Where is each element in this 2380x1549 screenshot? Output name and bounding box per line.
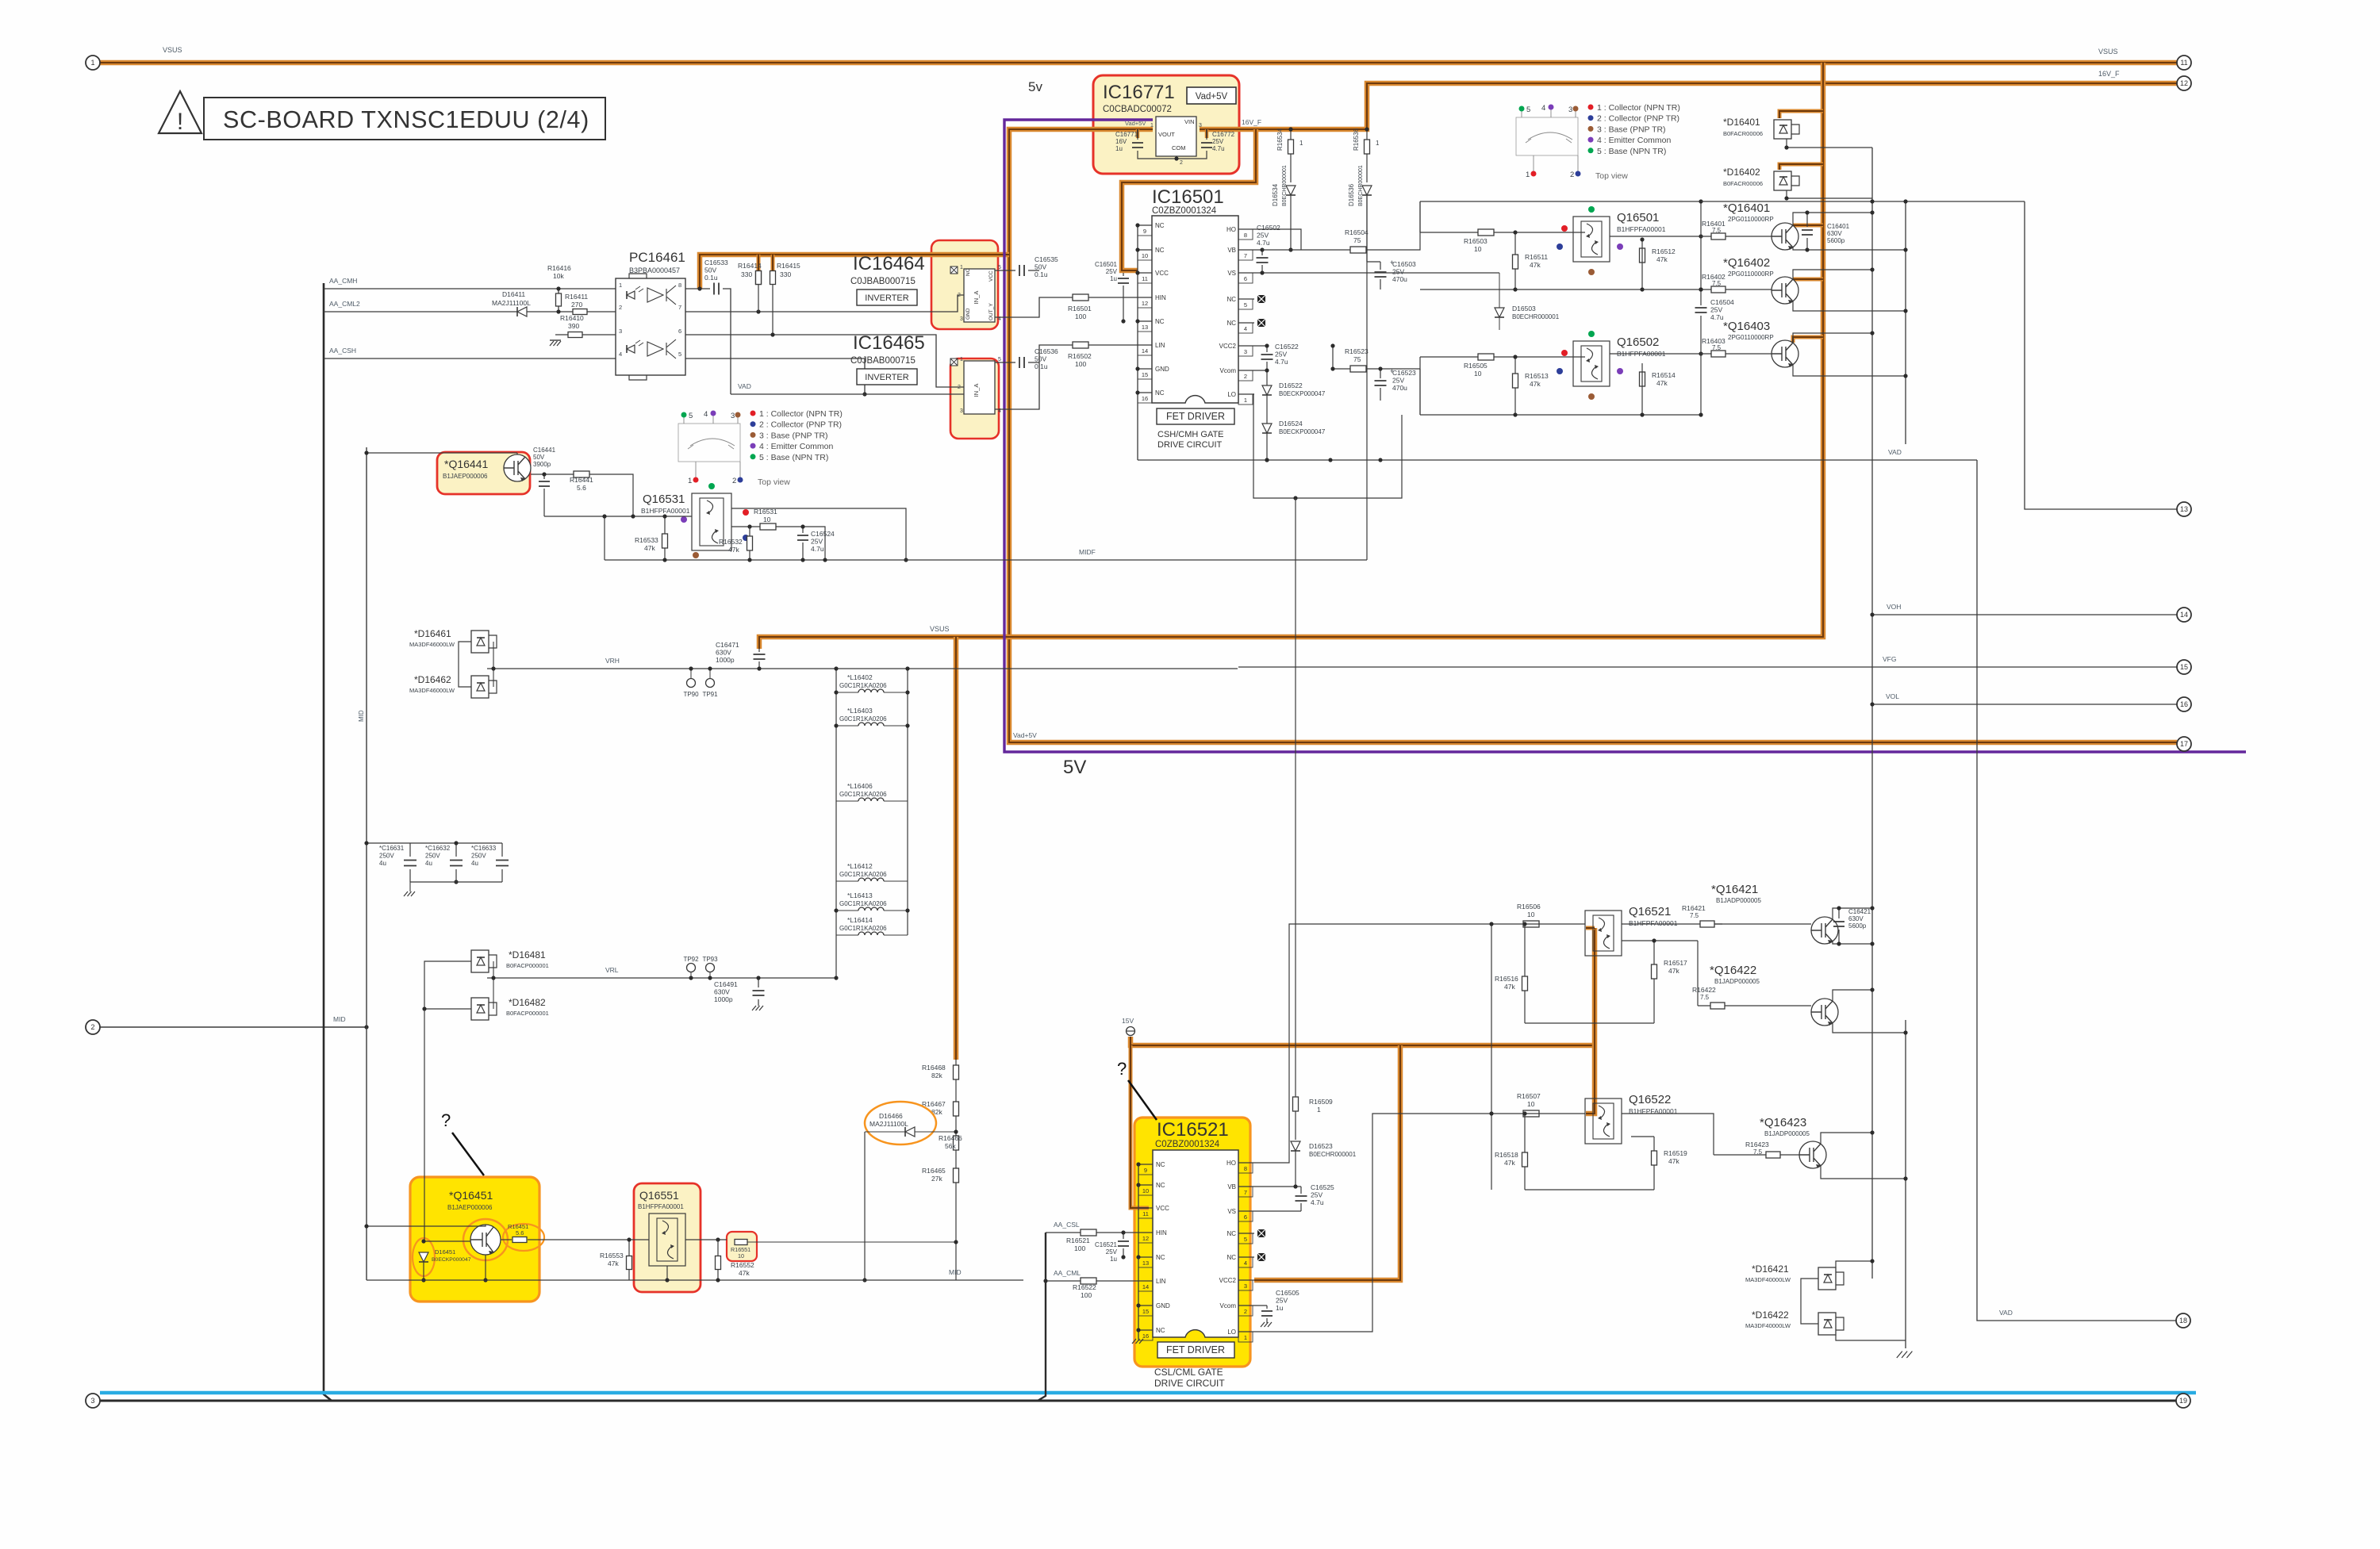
svg-text:5V: 5V [1063,757,1086,778]
capacitor C16533 [714,283,719,295]
wire Q16531 base [544,516,692,517]
svg-text:B0FACR00006: B0FACR00006 [1723,130,1763,137]
resistor R16522 [1081,1278,1096,1284]
svg-text:390: 390 [568,322,579,330]
resistor R16501 [1073,294,1088,301]
svg-text:B0ECHR000001: B0ECHR000001 [1309,1151,1357,1158]
svg-text:10: 10 [738,1252,744,1260]
wire MID from terminal 2 [100,1026,367,1028]
wire orange branch to IC16521 VCC [1130,1045,1149,1208]
wire GND rail VAD [1138,459,1977,461]
svg-text:14: 14 [1142,1283,1149,1290]
wire LO IC16521 [1254,1114,1491,1332]
svg-text:IC16465: IC16465 [853,332,925,354]
svg-text:*L16402: *L16402 [847,673,873,681]
svg-text:1: 1 [1526,171,1530,179]
wire HO IC16521 up to Q16521 [1254,924,1511,1163]
wire Q16403 emitter [1793,365,1906,376]
terminal 13 [2177,502,2191,516]
svg-text:13: 13 [1142,1260,1149,1267]
svg-text:C16502: C16502 [1257,224,1280,232]
svg-text:4u: 4u [425,860,432,867]
svg-text:R16415: R16415 [777,262,800,270]
wire Q16401 emitter [1793,247,1906,250]
node NC terminators IC16521 [1257,1229,1265,1237]
svg-text:LIN: LIN [1155,342,1165,349]
svg-text:!: ! [177,109,183,135]
capacitor C16503 [1367,262,1380,289]
svg-text:18: 18 [2179,1317,2187,1325]
svg-text:4u: 4u [379,860,386,867]
svg-text:IC16501: IC16501 [1152,186,1224,208]
svg-text:50V: 50V [533,454,545,461]
title box SC-BOARD TXNSC1EDUU (2/4) [204,98,605,140]
wire Vcom chain [1254,370,1267,460]
svg-text:2: 2 [1244,1308,1247,1315]
wire vertical AA bus [324,283,332,1401]
diode D16524 [1262,424,1272,433]
wire Q16441 emitter [531,474,633,516]
svg-text:B1JADP000005: B1JADP000005 [1714,978,1760,985]
svg-text:7.5: 7.5 [1712,280,1722,287]
svg-text:B1JADP000005: B1JADP000005 [1764,1130,1810,1137]
svg-text:470u: 470u [1392,384,1407,392]
resistor R16507 [1523,1110,1539,1117]
svg-text:COM: COM [1172,144,1186,151]
svg-text:100: 100 [1081,1291,1092,1299]
svg-text:25V: 25V [1257,232,1269,240]
resistor R16551 [735,1240,747,1245]
svg-text:Q16531: Q16531 [643,493,685,506]
wire Q16521 bottom rail [1525,1022,1654,1024]
svg-text:R16523: R16523 [1345,347,1368,355]
wire VAD rail [731,394,969,409]
svg-text:14: 14 [2180,611,2188,619]
wire VFG to terminal 15 [1238,666,2177,668]
svg-text:*Q16451: *Q16451 [449,1189,493,1202]
capacitor C16632 [455,843,457,882]
wire MIDF vertical from C16503 [1366,195,1368,560]
highlight block IC16771 [1093,75,1239,174]
svg-text:Q16522: Q16522 [1629,1093,1671,1106]
svg-text:CSH/CMH GATE: CSH/CMH GATE [1157,430,1224,439]
svg-text:47k: 47k [739,1269,750,1277]
svg-text:VRH: VRH [605,657,620,665]
IC IC16464 chip [964,269,995,322]
capacitor C16631 [367,842,502,844]
svg-text:10k: 10k [553,272,564,280]
transistor pair Q16531 [692,493,731,550]
svg-text:1: 1 [688,477,692,485]
svg-text:HO: HO [1226,1160,1236,1167]
svg-text:DRIVE CIRCUIT: DRIVE CIRCUIT [1157,440,1223,450]
capacitor C16536 [995,362,1039,363]
svg-text:8: 8 [1244,232,1247,239]
svg-text:SC-BOARD TXNSC1EDUU (2/4): SC-BOARD TXNSC1EDUU (2/4) [223,106,589,133]
capacitor C16772 [1201,143,1212,148]
svg-text:5: 5 [1244,1236,1247,1243]
svg-text:VAD: VAD [1888,448,1902,456]
terminal 14 [2177,608,2191,622]
svg-text:D16522: D16522 [1279,381,1303,389]
wire vertical VOL net [1869,704,1871,705]
wire AA_CSH [324,358,616,359]
wire MID bottom rail [367,1279,1023,1281]
svg-text:470u: 470u [1392,275,1407,283]
svg-text:15: 15 [2180,663,2188,671]
svg-text:C0ZBZ0001324: C0ZBZ0001324 [1155,1140,1220,1149]
wire D16481 D16482 left [424,961,471,1009]
resistor R16403 [1701,353,1772,355]
svg-text:3 : Base (PNP TR): 3 : Base (PNP TR) [759,431,828,440]
terminal 12 [2177,76,2191,90]
wire Vad+5V rail to inverters [700,255,1009,289]
wire vertical MID bus [366,447,367,1280]
capacitor C16501 [1123,273,1124,321]
svg-text:C16401: C16401 [1827,223,1850,230]
svg-text:VFG: VFG [1883,655,1896,663]
wire IC16464 out to HIN [995,297,1138,317]
svg-text:D16536: D16536 [1348,183,1355,206]
svg-text:6: 6 [678,328,681,335]
svg-text:R16466: R16466 [939,1134,962,1142]
wire collector rail x2360 [1871,148,1873,1279]
svg-text:7: 7 [678,304,681,311]
svg-text:FET DRIVER: FET DRIVER [1166,411,1225,422]
svg-text:10: 10 [763,516,771,523]
svg-text:*L16406: *L16406 [847,782,873,790]
svg-text:R16501: R16501 [1068,305,1092,312]
transistor pair Q16502 [1573,341,1610,386]
svg-text:3: 3 [1244,348,1247,355]
svg-text:7: 7 [1244,1189,1247,1196]
svg-text:B0ECKP000047: B0ECKP000047 [432,1257,471,1263]
svg-text:HO: HO [1226,226,1236,233]
svg-text:B1HFPFA00001: B1HFPFA00001 [1617,225,1666,233]
capacitor C16491 [758,978,759,1006]
resistor R16423 [1766,1152,1780,1158]
svg-text:R16503: R16503 [1464,237,1487,245]
wire driver top rail [1420,201,1701,202]
svg-text:4: 4 [1541,104,1545,113]
capacitor C16421 [1833,908,1872,919]
capacitor C16633 [501,843,503,882]
wire Q16521 base rail [1491,924,1492,1190]
svg-text:D16466: D16466 [879,1112,903,1120]
wire vertical x2357 lower [1869,615,1871,869]
svg-text:330: 330 [741,270,752,278]
svg-text:R16506: R16506 [1517,903,1541,911]
svg-text:10: 10 [1142,252,1148,259]
svg-text:50V: 50V [1035,355,1046,363]
svg-text:2 : Collector (PNP TR): 2 : Collector (PNP TR) [1597,114,1679,124]
svg-text:Q16502: Q16502 [1617,335,1659,349]
capacitor C16521 [1123,1233,1124,1257]
svg-text:R16505: R16505 [1464,362,1487,370]
wire Q16422 collector [1833,990,1872,1001]
svg-text:FET DRIVER: FET DRIVER [1166,1344,1225,1355]
resistor R16511 [1514,232,1516,289]
svg-text:LO: LO [1227,391,1236,398]
svg-text:1u: 1u [1110,1256,1117,1263]
svg-text:1: 1 [1244,1334,1247,1341]
wire Q16531 right out [731,508,906,560]
svg-text:IC16771: IC16771 [1103,82,1175,103]
resistor R16532 [749,527,750,560]
svg-text:1: 1 [1299,140,1303,147]
resistor R16415 [772,270,773,335]
svg-text:*Q16423: *Q16423 [1760,1116,1806,1129]
resistor R16466 [954,1136,959,1150]
svg-text:4: 4 [1244,1260,1247,1267]
highlight block IC16464 [931,240,998,329]
wire IC16521 left pin column [1138,1164,1139,1339]
svg-text:3 : Base (PNP TR): 3 : Base (PNP TR) [1597,125,1666,134]
svg-text:16: 16 [2180,700,2188,708]
svg-text:10: 10 [1474,370,1482,378]
resistor R16536 [1366,129,1368,182]
svg-text:R16536: R16536 [1353,128,1360,151]
wire AA_CML2 [324,311,616,312]
svg-text:B1HFPFA00001: B1HFPFA00001 [638,1203,684,1210]
svg-text:D16451: D16451 [435,1248,455,1256]
svg-text:15V: 15V [1122,1017,1134,1025]
svg-text:B0FACR00006: B0FACR00006 [1723,180,1763,187]
svg-text:5 : Base (NPN TR): 5 : Base (NPN TR) [759,453,828,462]
svg-text:NC: NC [1155,222,1165,229]
resistor R16441 [574,471,589,477]
svg-text:*D16462: *D16462 [414,674,451,685]
svg-text:MA3DF46000LW: MA3DF46000LW [409,687,455,694]
svg-text:2: 2 [1244,373,1247,380]
svg-text:B0ECHR000001: B0ECHR000001 [1512,313,1560,320]
svg-text:R16519: R16519 [1664,1149,1687,1157]
svg-text:Q16501: Q16501 [1617,211,1659,224]
svg-text:VSUS: VSUS [930,625,950,633]
svg-text:VSUS: VSUS [163,46,182,54]
capacitor C16525 [1254,1187,1301,1211]
wire Q16423 collector [1821,1133,1872,1144]
svg-text:GND: GND [1156,1302,1170,1309]
wire Q16422 emitter [1833,1023,1906,1033]
svg-text:G0C1R1KA0206: G0C1R1KA0206 [839,791,887,798]
resistor R16467 [954,1102,959,1116]
wire AA_CSL [1046,1232,1138,1233]
svg-text:R16518: R16518 [1495,1151,1518,1159]
wire VRL [487,977,836,979]
svg-text:R16504: R16504 [1345,228,1368,236]
svg-text:10: 10 [1527,911,1535,918]
terminal 15 [2177,660,2191,674]
svg-text:AA_CSL: AA_CSL [1054,1221,1080,1229]
svg-text:NC: NC [1156,1161,1165,1168]
svg-text:IC16464: IC16464 [853,253,925,274]
svg-text:25V: 25V [1212,138,1224,145]
svg-text:?: ? [1117,1059,1127,1079]
svg-text:R16441: R16441 [570,476,593,484]
svg-text:5: 5 [998,265,1001,270]
resistor R16411 [573,309,587,315]
svg-text:100: 100 [1074,1244,1085,1252]
svg-text:100: 100 [1075,312,1086,320]
wire orange stub Q16402 collector [1793,278,1823,282]
svg-text:GND: GND [965,308,971,320]
svg-text:C16441: C16441 [533,447,556,454]
svg-text:4.7u: 4.7u [1275,358,1288,366]
capacitor C16535 [995,270,1039,271]
diode D16466 with orange ellipse [865,1102,936,1144]
wire Q16451 base [424,1010,470,1241]
svg-text:25V: 25V [1106,1248,1118,1256]
svg-text:1: 1 [1317,1106,1321,1114]
resistor R16505 [1420,356,1585,358]
svg-text:*C16632: *C16632 [425,845,451,852]
svg-text:5v: 5v [1028,79,1042,94]
resistor R16517 [1622,940,1698,941]
svg-text:R16514: R16514 [1652,371,1676,379]
svg-text:R16507: R16507 [1517,1092,1541,1100]
svg-text:G0C1R1KA0206: G0C1R1KA0206 [839,715,887,723]
svg-text:47k: 47k [1668,1157,1679,1165]
wire VRH [487,668,1238,669]
resistor R16553 [628,1240,630,1280]
svg-text:25V: 25V [1392,377,1404,385]
svg-text:10: 10 [1142,1187,1149,1194]
svg-text:8: 8 [678,282,681,289]
svg-text:B0FACP000001: B0FACP000001 [506,1010,549,1017]
svg-text:7.5: 7.5 [1690,912,1699,919]
svg-text:C16501: C16501 [1095,261,1118,268]
svg-text:7: 7 [1244,252,1247,259]
svg-text:C16536: C16536 [1035,347,1058,355]
svg-text:VOUT: VOUT [1158,131,1175,138]
svg-text:NC: NC [1226,296,1236,303]
svg-text:HIN: HIN [1156,1229,1167,1237]
terminal 11 [2177,56,2191,70]
svg-text:C16421: C16421 [1848,908,1871,915]
svg-text:VIN: VIN [1184,118,1195,125]
svg-text:C16524: C16524 [811,530,835,538]
resistor R16421 [1700,921,1714,927]
svg-text:AA_CML2: AA_CML2 [329,300,360,308]
svg-text:75: 75 [1353,355,1361,363]
transistor Q16402 [1772,277,1798,304]
svg-text:R16410: R16410 [560,314,584,322]
wire D16461 D16462 left [459,642,471,687]
svg-text:AA_CML: AA_CML [1054,1269,1081,1277]
svg-text:LO: LO [1227,1329,1236,1336]
svg-text:Q16521: Q16521 [1629,905,1671,918]
svg-text:C0JBAB000715: C0JBAB000715 [850,356,916,366]
svg-text:3900p: 3900p [533,461,551,468]
capacitor C16505 [1254,1306,1267,1323]
svg-text:5600p: 5600p [1848,922,1867,930]
svg-text:VCC: VCC [988,270,994,282]
svg-text:*D16422: *D16422 [1752,1309,1789,1321]
wire IC16465 out to LIN [995,345,1138,409]
svg-text:4: 4 [1244,325,1247,332]
svg-text:C16525: C16525 [1311,1183,1334,1191]
transistor Q16422 [1811,999,1838,1026]
svg-text:1: 1 [619,282,622,289]
svg-text:R16468: R16468 [922,1064,946,1072]
svg-text:4.7u: 4.7u [1311,1198,1324,1206]
wire HO network [1254,229,1333,250]
svg-text:250V: 250V [379,853,394,860]
wire PC16461 pin6 [685,335,964,387]
svg-text:G0C1R1KA0206: G0C1R1KA0206 [839,925,887,932]
svg-text:9: 9 [1144,1167,1147,1174]
wire VSUS top bus [100,60,2177,66]
wire Q16451 collector top [367,1225,486,1226]
wire emitter rail x2402 [1905,201,1906,444]
resistor R16533 [664,516,666,560]
svg-text:B0ECKP000047: B0ECKP000047 [1279,428,1326,435]
resistor R16512 [1630,262,1631,289]
svg-text:*D16461: *D16461 [414,628,451,639]
highlight block Q16451 [410,1177,539,1302]
testpoint TP90 [690,669,692,678]
resistor R16521 [1081,1229,1096,1236]
svg-text:C16471: C16471 [716,641,739,649]
svg-text:5: 5 [689,412,693,420]
svg-text:C16491: C16491 [714,980,738,988]
svg-text:C16522: C16522 [1275,343,1299,351]
svg-text:7.5: 7.5 [1700,994,1710,1001]
svg-text:1: 1 [960,357,963,362]
svg-text:2: 2 [958,293,961,298]
svg-text:*C16633: *C16633 [471,845,497,852]
svg-text:*D16401: *D16401 [1723,117,1760,128]
svg-text:25V: 25V [1106,268,1118,275]
transistor Q16421 [1811,917,1838,944]
svg-text:250V: 250V [425,853,440,860]
svg-text:VB: VB [1227,1183,1236,1191]
svg-text:IN_A: IN_A [973,384,980,397]
svg-text:1u: 1u [1276,1304,1284,1312]
svg-text:R16411: R16411 [565,293,588,301]
svg-text:4: 4 [619,351,622,358]
svg-text:1: 1 [90,59,94,67]
terminal 3 [86,1394,100,1408]
svg-text:AA_CSH: AA_CSH [329,347,356,355]
svg-text:C16771: C16771 [1115,131,1138,138]
capacitor C16771 [1136,129,1140,138]
svg-text:5: 5 [678,351,681,358]
wire Q16423 emitter [1821,1166,1906,1179]
svg-text:VB: VB [1227,247,1236,254]
wire PC16461 pin7 [685,295,964,312]
wire VS rail [1254,272,1499,274]
svg-text:47k: 47k [1504,983,1515,991]
svg-text:5: 5 [1526,105,1530,114]
svg-text:75: 75 [1353,236,1361,244]
svg-text:R16522: R16522 [1073,1283,1096,1291]
svg-text:*C16631: *C16631 [379,845,405,852]
wire VOL vertical [1872,704,2177,705]
terminal 18 [2176,1313,2190,1328]
svg-text:R16553: R16553 [600,1252,624,1260]
svg-text:4 : Emitter Common: 4 : Emitter Common [759,442,834,451]
ground D16422 [1897,1352,1913,1358]
svg-text:4.7u: 4.7u [1710,313,1724,321]
resistor R16531 [731,527,825,560]
wire VCC2 to driver network [1419,369,1421,415]
svg-text:2PG0110000RP: 2PG0110000RP [1728,270,1774,278]
svg-text:VRL: VRL [605,966,619,974]
svg-text:11: 11 [2180,59,2187,67]
diode D16411 [517,307,527,316]
